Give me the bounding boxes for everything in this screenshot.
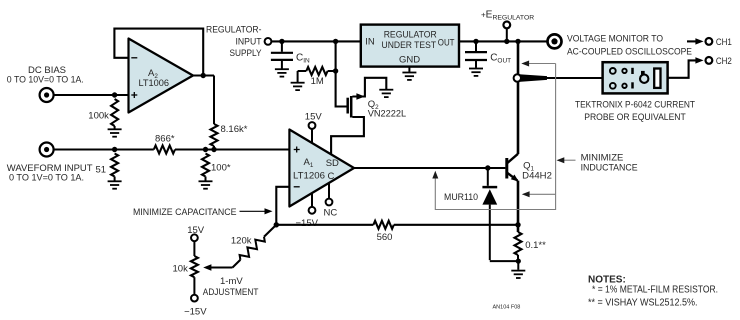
wire 1M ground stem [297,71,299,82]
label MINIMIZE CAPACITANCE [133,207,237,218]
node COUT top [473,39,478,44]
svg-text:INPUT: INPUT [236,37,262,48]
wire supply rail [271,40,360,42]
ground Q2 drain [379,90,393,97]
resistor 866* [154,146,175,154]
svg-text:SD: SD [326,158,339,169]
label CH2 [716,56,732,67]
label WAVEFORM INPUT [7,163,93,174]
label Q1 [523,160,534,172]
node 1M right / gate branch [333,39,338,44]
wire dc-bias to A2 + input [54,94,129,96]
wire A1 inverting input loop [276,187,289,225]
callout arrow minimize capacitance [240,208,273,214]
op-amp A1 LT1206 [289,130,354,207]
svg-text:IN: IN [365,37,375,48]
label 10k [173,264,189,275]
svg-text:0 TO 1V=0 TO 1A.: 0 TO 1V=0 TO 1A. [9,173,84,184]
svg-text:UNDER TEST: UNDER TEST [382,40,437,51]
node 100 top [203,147,208,152]
wire Q1 collector vertical [517,41,520,154]
node CIN top [279,39,284,44]
arrow CH2 [695,57,703,63]
svg-text:SUPPLY: SUPPLY [230,48,263,59]
capacitor COUT [465,41,487,67]
wire wiper to 120k [233,260,241,268]
wire CH2 path [668,60,696,77]
pin A1 -15V supply [309,193,316,213]
ground under 1M [291,83,305,90]
label VOLTAGE MONITOR TO [567,34,663,45]
label SUPPLY [230,48,263,59]
ground under 100k [108,129,122,136]
terminal +15V pot [191,234,198,241]
svg-text:TEKTRONIX P-6042 CURRENT: TEKTRONIX P-6042 CURRENT [575,100,695,111]
transistor Q2 VN2222L [331,78,386,155]
potentiometer 10k [191,256,198,295]
capacitor CIN [271,41,293,68]
wire 560 left [276,224,373,226]
wire A2 feedback loop [114,29,203,76]
label CIN [296,53,310,65]
op-amp A2 LT1006 [129,39,194,113]
label Q2 [368,99,379,111]
node collector branch [515,39,520,44]
wire pot top [193,241,195,256]
resistor 51 [111,154,118,181]
wire CH1 stub [687,40,697,42]
label COUT [490,53,511,65]
svg-text:AC-COUPLED OSCILLOSCOPE: AC-COUPLED OSCILLOSCOPE [567,47,692,58]
resistor 100k [111,99,118,129]
svg-text:15V: 15V [305,112,323,123]
node 51 top [112,147,117,152]
svg-text:NC: NC [324,207,338,218]
wire probe cable [547,77,603,79]
node 100k top [112,92,117,97]
label -15V A1 [296,218,319,229]
label 51 [96,165,107,176]
label PROBE OR EQUIVALENT [584,112,686,123]
resistor 1M [298,67,336,75]
wire Q1 emitter vertical [517,181,520,232]
terminal +E regulator [503,22,510,42]
label AC-COUPLED OSCILLOSCOPE [567,47,692,58]
svg-text:VN2222L: VN2222L [368,108,407,119]
node 1M junction [333,68,338,73]
wire A2 output down [213,76,215,125]
label REGULATOR- [206,25,262,36]
node A2 output [201,73,206,78]
svg-text:* = 1% METAL-FILM RESISTOR.: * = 1% METAL-FILM RESISTOR. [592,285,718,296]
callout minimize inductance bracket [435,64,575,210]
wire gate from 1M node [336,41,347,106]
label +E REGULATOR [481,10,534,22]
label INDUCTANCE [581,163,638,174]
node emitter feedback [515,222,520,227]
svg-text:120k: 120k [231,235,252,246]
svg-text:−15V: −15V [296,218,319,229]
svg-text:100*: 100* [211,163,231,174]
label CH1 [716,37,732,48]
terminal CH2 [706,57,713,64]
label note 1 [592,285,718,296]
svg-text:LT1006: LT1006 [139,78,170,89]
svg-text:1M: 1M [311,76,324,87]
label REGULATOR [384,29,437,40]
callout arrow at base wire [432,171,438,179]
svg-text:15V: 15V [187,225,205,236]
terminal regulator input supply [265,38,272,45]
label 100* [211,163,231,174]
node 0.1 bottom [516,259,521,264]
label 100k [88,110,109,121]
svg-text:OUT: OUT [438,37,455,48]
wire waveform rail left [54,148,154,150]
resistor 8.16k* [211,124,218,150]
svg-text:INDUCTANCE: INDUCTANCE [581,163,638,174]
svg-text:CH2: CH2 [716,56,732,67]
ground under regulator [402,73,416,80]
svg-text:−15V: −15V [184,307,207,318]
terminal J2 waveform input [40,143,54,157]
node A1 inverting feedback [274,222,279,227]
label A1 [304,157,314,169]
wire 0.1 bottom [517,255,519,261]
wire A1 output to Q1 base [354,167,505,169]
svg-text:CH1: CH1 [716,37,732,48]
label AN104 F08 [493,305,521,311]
resistor 0.1** [515,232,522,255]
label VN2222L [368,108,407,119]
svg-text:MUR110: MUR110 [444,192,478,203]
callout arrow at emitter [522,191,530,197]
regulator under test box U1 [361,25,459,67]
label 15V pot [187,225,205,236]
wire A2 output [193,74,214,76]
label 0 TO 10V=0 TO 1A. [7,74,84,85]
label -15V pot [184,307,207,318]
svg-text:GND: GND [399,54,420,65]
label SD [326,158,339,169]
pin A1 C NC [326,183,333,205]
label 8.16k* [221,124,248,135]
label D44H2 [522,171,552,182]
label 0.1** [525,240,546,251]
label 1-mV [220,276,243,287]
current probe clamp [514,74,547,82]
ground under COUT [469,69,483,76]
pot wiper arrow [203,264,232,270]
svg-text:D44H2: D44H2 [522,171,552,182]
callout arrow at collector [521,61,529,67]
wire MUR110 anode to ground node [490,260,519,262]
label C pin [328,171,335,182]
svg-text:1-mV: 1-mV [220,276,243,287]
label DC BIAS [28,65,66,76]
terminal voltage monitor [548,34,562,48]
svg-text:LT1206: LT1206 [293,170,325,181]
label NC [324,207,338,218]
current probe box [603,62,668,93]
pin A1 +15V supply [309,122,316,143]
label OUT [438,37,455,48]
ground under CIN [275,69,289,76]
svg-text:100k: 100k [88,110,109,121]
terminal J1 DC bias input [40,88,54,102]
ground under 0.1 [511,271,525,278]
svg-text:0.1**: 0.1** [525,240,546,251]
label UNDER TEST [382,40,437,51]
label MINIMIZE [581,152,624,163]
label note 2 [588,297,698,308]
arrow CH1 [695,38,703,44]
svg-text:0 TO 10V=0 TO 1A.: 0 TO 10V=0 TO 1A. [7,74,84,85]
label 0 TO 1V=0 TO 1A. [9,173,84,184]
wire 560 right [394,224,518,226]
label 560 [377,232,393,243]
label NOTES: [588,274,626,285]
pin regulator GND [408,67,410,72]
wire 120k to node [264,225,276,237]
svg-text:** = VISHAY WSL2512.5%.: ** = VISHAY WSL2512.5%. [588,297,698,308]
svg-text:560: 560 [377,232,393,243]
node +E [504,39,509,44]
svg-text:C: C [328,171,335,182]
label INPUT [236,37,262,48]
resistor 120k [240,237,265,260]
svg-text:ADJUSTMENT: ADJUSTMENT [203,287,259,298]
label LT1006 [139,78,170,89]
svg-text:866*: 866* [155,134,175,145]
svg-text:51: 51 [96,165,107,176]
label A2 [148,68,158,80]
svg-text:REGULATOR-: REGULATOR- [206,25,262,36]
label TEKTRONIX P-6042 CURRENT [575,100,695,111]
resistor 560 [373,221,393,229]
ground under 100 [199,181,213,188]
svg-text:10k: 10k [173,264,189,275]
transistor Q1 D44H2 [507,154,519,182]
label MUR110 [444,192,478,203]
label LT1206 [293,170,325,181]
terminal CH1 [706,38,713,45]
node MUR110 cathode [485,165,490,170]
wire regulator out rail [459,40,547,42]
ground under 51 [108,181,122,188]
wire ground stem [517,261,519,270]
svg-text:MINIMIZE CAPACITANCE: MINIMIZE CAPACITANCE [133,207,237,218]
svg-text:PROBE OR EQUIVALENT: PROBE OR EQUIVALENT [584,112,686,123]
label ADJUSTMENT [203,287,259,298]
label 866* [155,134,175,145]
diode MUR110 [482,168,497,260]
resistor 100* [202,154,209,181]
callout arrow at bracket [557,157,565,163]
label GND [399,54,420,65]
wire waveform rail right [175,148,289,150]
label 15V A1 [305,112,323,123]
label IN [365,37,375,48]
svg-text:AN104 F08: AN104 F08 [493,305,521,311]
node 8.16k bottom [211,147,216,152]
label 120k [231,235,252,246]
svg-text:8.16k*: 8.16k* [221,124,248,135]
label 1M [311,76,324,87]
svg-text:REGULATOR: REGULATOR [384,29,437,40]
terminal -15V pot [191,295,198,302]
svg-text:VOLTAGE MONITOR TO: VOLTAGE MONITOR TO [567,34,663,45]
